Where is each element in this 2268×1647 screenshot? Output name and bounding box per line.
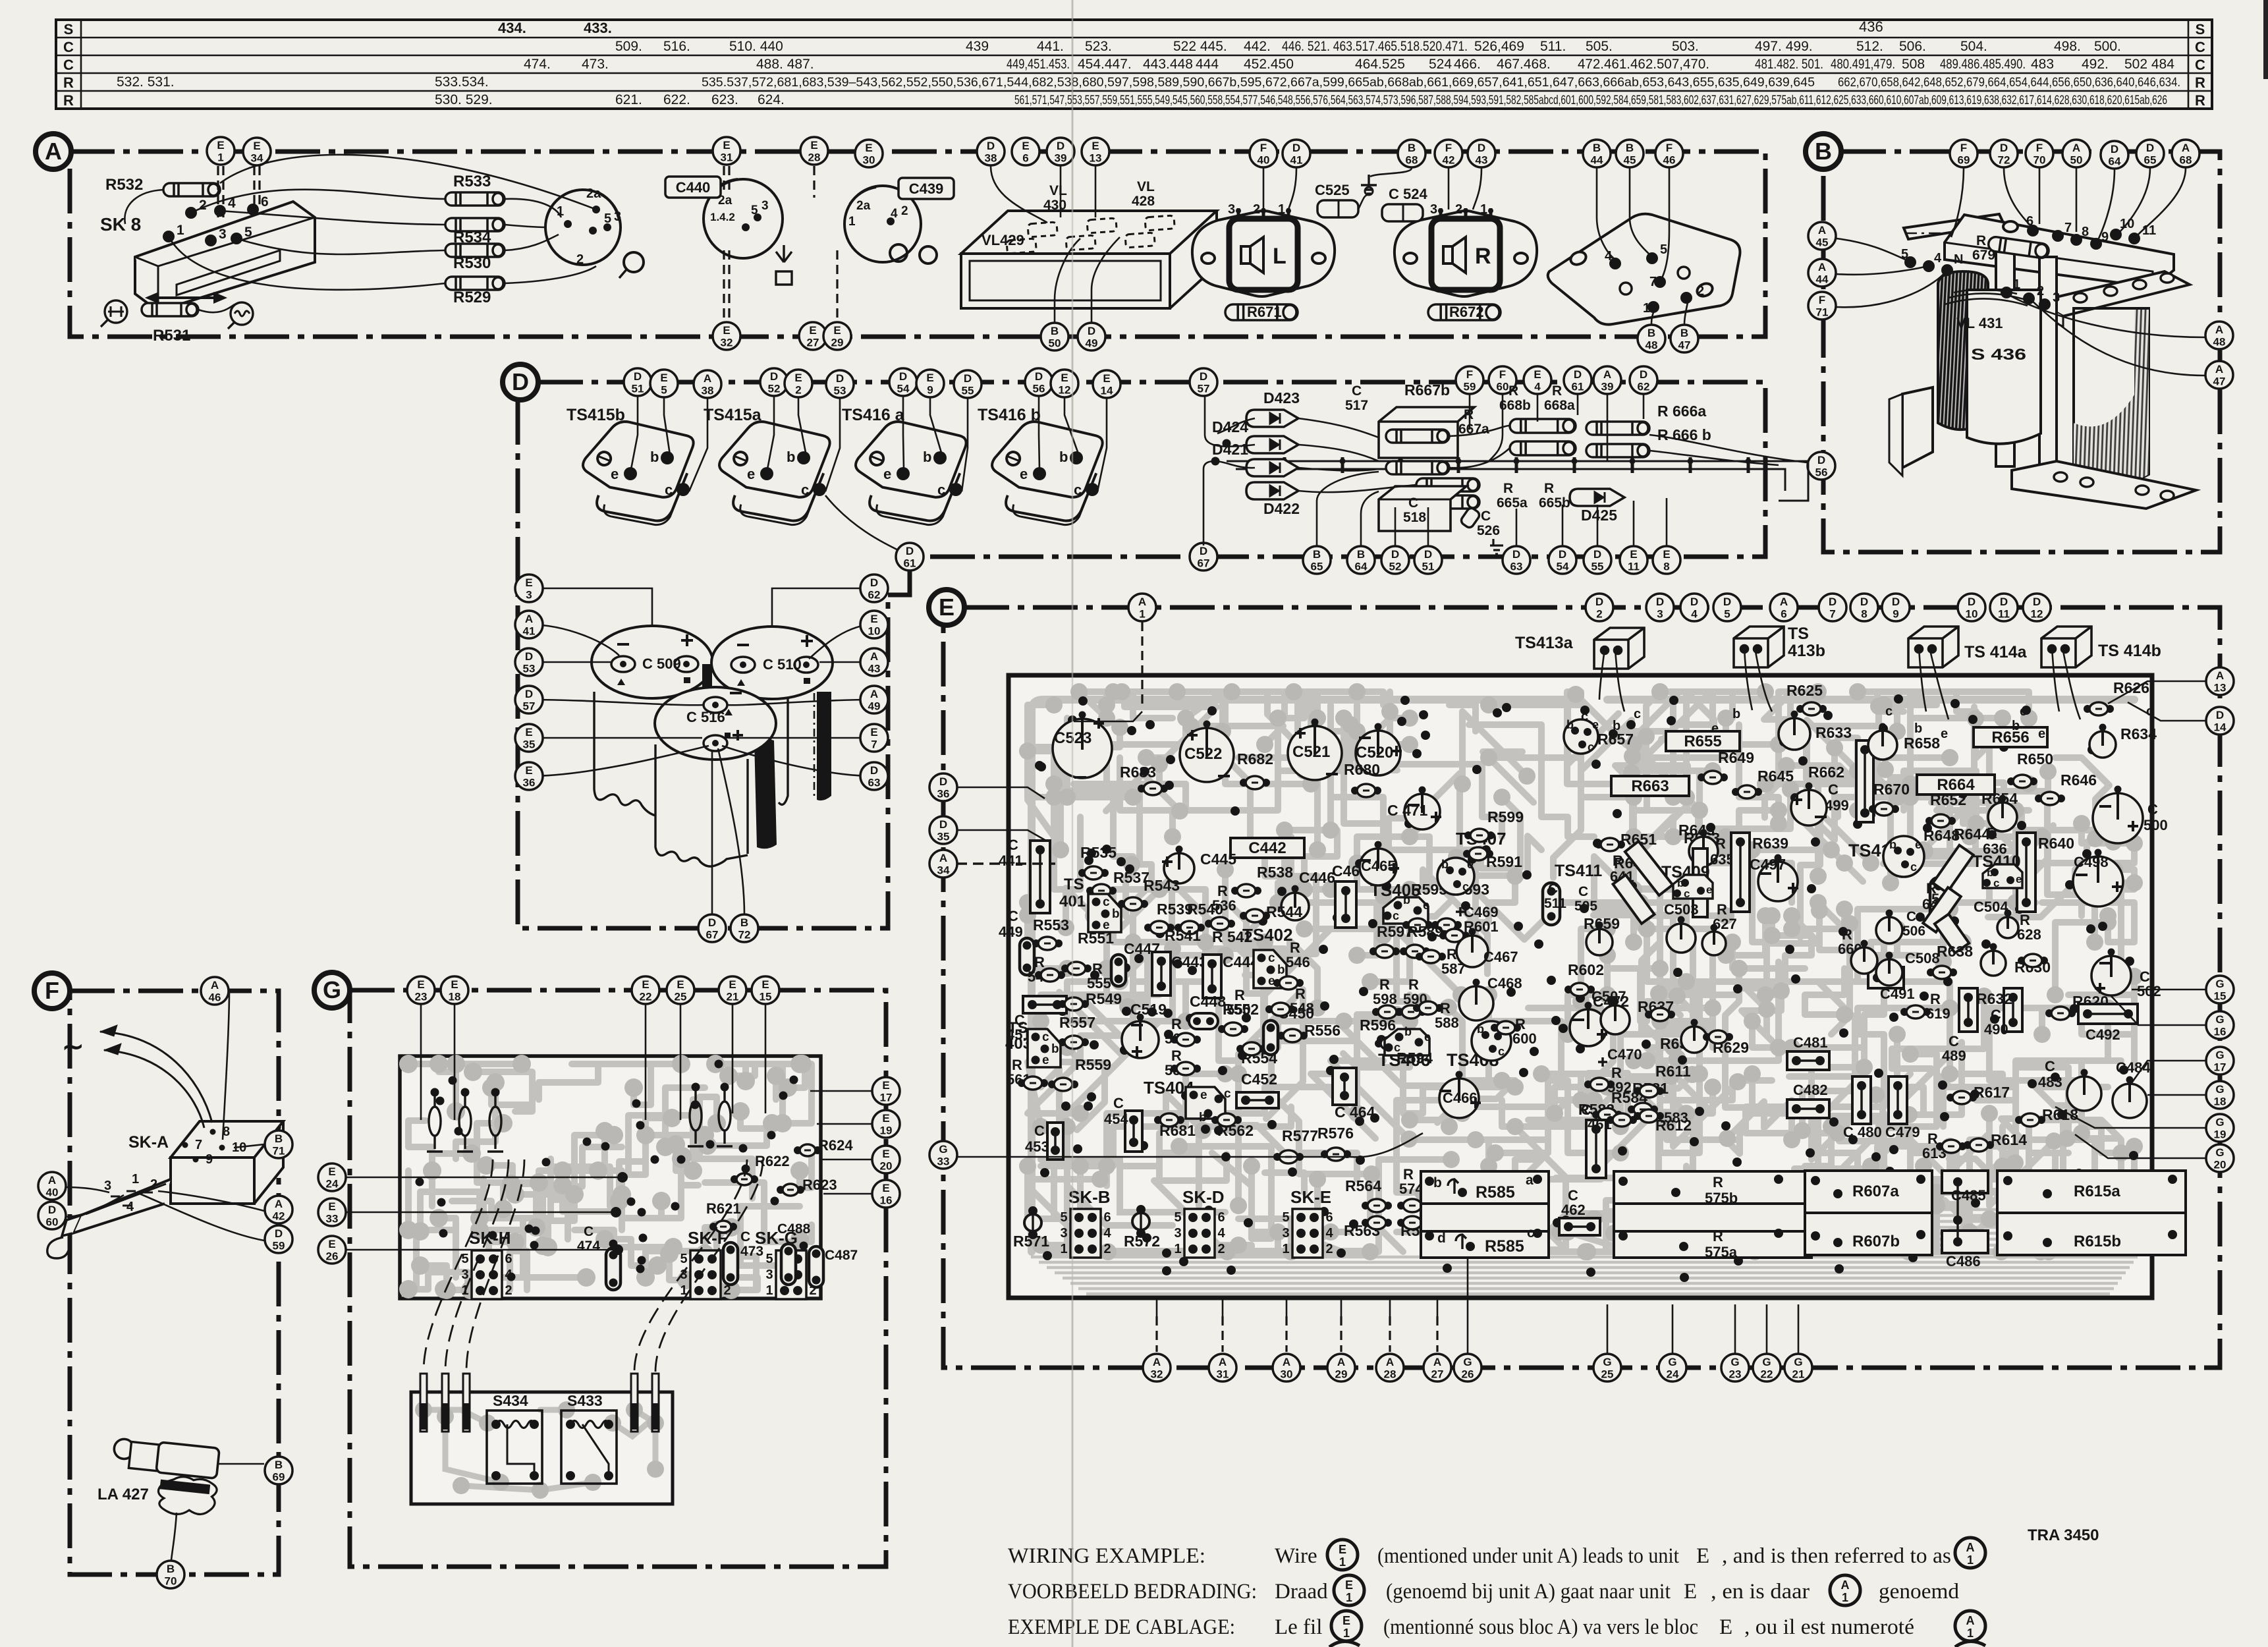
svg-text:C479: C479 [1885,1124,1920,1140]
svg-text:R680: R680 [1344,761,1380,778]
capacitor C443 [1152,952,1171,995]
resistor R592 [1584,1078,1615,1091]
wire E4 down [1537,395,1539,422]
svg-text:c: c [1074,482,1082,498]
svg-text:TS: TS [1064,876,1084,893]
rectifier 3D box C517/R667b [1379,407,1474,458]
node G17 [2206,1047,2234,1075]
svg-text:R564: R564 [1345,1177,1381,1194]
svg-text:441: 441 [999,852,1023,869]
wire D51 to e [631,397,638,469]
svg-text:51: 51 [1422,561,1435,573]
svg-text:SK-D: SK-D [1182,1187,1225,1207]
diode D422 [1246,482,1298,499]
svg-text:C 471: C 471 [1387,802,1428,819]
transistor TS402 [1254,950,1286,988]
capacitor C481 [1787,1051,1829,1070]
capacitor C445 [1162,846,1194,884]
legend pin E1 [1327,1540,1358,1570]
svg-text:50: 50 [1049,337,1061,350]
svg-text:.: . [79,21,83,38]
relay S433 [561,1410,617,1484]
wire G15 [2132,989,2205,991]
transistor R653 [1689,829,1718,866]
node D2 [1586,594,1613,621]
capacitor C465 [1359,841,1399,886]
svg-text:R662: R662 [1808,764,1844,781]
svg-text:A: A [211,979,219,991]
svg-text:C442: C442 [1248,839,1286,857]
svg-text:45: 45 [1816,237,1829,249]
svg-text:D: D [870,576,878,589]
svg-text:67: 67 [1198,557,1210,570]
resistor R552 [1218,1022,1248,1036]
legend pin E1 [1331,1611,1362,1641]
wire D57 to D424 [1205,397,1255,447]
svg-text:D: D [1478,142,1485,154]
svg-text:45: 45 [1624,154,1636,167]
wire F59 down [1469,395,1471,430]
svg-text:e: e [1042,1053,1049,1067]
svg-text:WIRING EXAMPLE:: WIRING EXAMPLE: [1008,1544,1205,1568]
svg-text:4: 4 [1934,251,1942,265]
transistor R654 [1988,795,2017,832]
svg-text:5: 5 [680,1252,687,1266]
wire B70 link [171,1513,177,1560]
capacitor C512 [1930,878,1947,924]
wire E25 [680,1005,682,1120]
svg-text:G: G [1794,1356,1802,1368]
svg-text:27: 27 [1431,1368,1444,1381]
svg-text:1: 1 [1060,1242,1067,1256]
svg-text:4: 4 [1325,1226,1333,1241]
svg-text:51: 51 [632,383,644,395]
transistor TS401 [1088,894,1121,932]
svg-text:b: b [1112,907,1120,921]
svg-text:D: D [1690,596,1698,608]
legend row 4 (cut off) [1329,1641,1985,1647]
svg-text:C: C [584,1224,594,1239]
table row S values [79,18,1883,38]
svg-text:8: 8 [1663,561,1669,573]
wire ts413b-2 [1755,648,1772,712]
svg-text:9: 9 [927,384,933,397]
resistor R539 [1144,921,1175,934]
svg-text:B: B [1357,548,1365,561]
wire stubs entering G board [427,1094,443,1152]
svg-text:13: 13 [1090,152,1102,165]
svg-text:550: 550 [1227,1001,1251,1018]
svg-text:F: F [1445,142,1452,154]
svg-text:10: 10 [868,625,881,638]
svg-text:28: 28 [808,152,821,164]
resistor R561 [1018,1076,1048,1090]
svg-text:62: 62 [868,589,881,601]
wire ts413b-1 [1744,648,1752,710]
capacitor C519 [1122,1014,1159,1059]
svg-text:413b: 413b [1788,642,1825,660]
node A34 [929,850,957,878]
resistor R638 [1927,966,1957,979]
wire D64 [2099,169,2115,238]
svg-text:679: 679 [1972,248,1995,263]
capacitor C498 [2073,849,2123,907]
svg-text:E: E [660,372,667,384]
svg-text:B: B [1051,325,1059,337]
node D60 [38,1202,66,1229]
svg-text:b: b [1277,963,1285,977]
transistor TS410 [1983,864,2022,888]
svg-text:665a: 665a [1497,495,1528,511]
svg-text:Draad: Draad [1275,1580,1328,1604]
svg-text:D: D [1292,142,1300,154]
svg-text:E: E [882,1112,889,1125]
svg-text:6: 6 [1781,608,1786,621]
svg-text:453: 453 [1025,1138,1049,1155]
svg-text:R658: R658 [1904,735,1940,752]
svg-text:3: 3 [1282,1226,1289,1241]
node D57 [1190,368,1217,396]
svg-text:R623: R623 [802,1177,837,1193]
svg-text:498.: 498. [2054,39,2081,54]
capacitor C506 [1876,910,1902,944]
svg-text:1: 1 [848,215,856,229]
wire drop 2110 [1389,1316,1391,1352]
resistor R538 [1231,884,1261,897]
svg-text:G: G [1730,1356,1739,1368]
svg-text:R: R [2195,74,2205,91]
node A38 [694,370,721,398]
svg-text:b: b [1051,1042,1059,1056]
diode D421 [1246,459,1298,476]
svg-text:D: D [2033,596,2041,608]
resistor R557 [1059,1036,1089,1049]
svg-text:57: 57 [523,700,536,713]
resistor R546 [1273,976,1304,990]
node B48 [1638,325,1665,352]
wire E13 to lamp [1095,166,1097,217]
wire SK8-2 to R533 [191,190,445,213]
transistor mounting plate [1548,214,1740,325]
node B69 [265,1457,292,1484]
svg-text:B: B [275,1459,283,1471]
svg-text:492.: 492. [2082,57,2109,72]
svg-text:555: 555 [1087,975,1111,991]
svg-text:D425: D425 [1581,507,1617,524]
svg-text:575b: 575b [1705,1190,1738,1206]
svg-text:15: 15 [2214,990,2227,1003]
resistor R553 [1032,937,1063,950]
svg-text:452.450: 452.450 [1244,57,1294,72]
svg-text:R640: R640 [2038,835,2074,852]
capacitor C518 box [1379,486,1466,531]
svg-text:36: 36 [937,788,950,800]
wire R534 to pot [505,225,545,227]
svg-text:D: D [525,688,533,700]
capacitor C472 [1570,1002,1607,1047]
svg-text:R: R [1613,852,1623,869]
svg-text:e: e [2016,873,2022,885]
svg-text:467.468.: 467.468. [1497,57,1551,72]
svg-text:49: 49 [868,700,881,713]
resistor R629 [1703,1030,1733,1044]
section label F [34,973,70,1009]
svg-text:c: c [665,482,673,498]
svg-text:C508: C508 [1905,950,1940,966]
svg-text:6: 6 [1217,1210,1225,1225]
svg-text:D: D [899,370,907,383]
svg-text:F: F [45,977,59,1004]
svg-text:68: 68 [1406,154,1418,167]
resistor R577 [1273,1150,1304,1163]
svg-text:7: 7 [2064,221,2072,235]
svg-text:473.: 473. [582,57,609,72]
svg-text:C445: C445 [1200,851,1236,868]
wire D62 down [1643,395,1645,419]
resistor R666b body [1586,444,1649,457]
svg-text:1: 1 [1480,202,1487,217]
svg-text:31: 31 [721,152,733,164]
svg-text:430: 430 [1043,198,1066,213]
svg-text:E: E [882,1148,889,1160]
resistor R554 [1236,1042,1267,1055]
svg-text:E: E [1022,140,1029,152]
wire E1 drop [218,166,223,217]
svg-text:54: 54 [1557,561,1569,573]
capacitor C463 [1335,881,1356,928]
section label E [929,590,964,625]
svg-text:C498: C498 [2074,854,2109,870]
svg-text:33: 33 [326,1213,339,1225]
svg-text:E: E [926,372,933,384]
capacitor C523 [1053,712,1112,779]
section label G [314,972,350,1008]
svg-text:D: D [906,545,914,557]
capacitor C491 [1868,967,1904,988]
svg-text:61: 61 [1572,381,1584,393]
svg-text:G: G [2215,1146,2224,1159]
svg-text:8: 8 [2082,225,2089,239]
svg-text:A: A [870,688,878,700]
capacitor C482 [1787,1100,1829,1118]
svg-text:G: G [2215,1083,2224,1096]
svg-text:D: D [1200,370,1207,383]
svg-text:R: R [1464,407,1474,422]
output transformer S436 assembly [1904,214,2190,474]
wire D424a [1217,418,1255,433]
resistor R530 [445,244,505,257]
svg-text:5: 5 [1724,608,1730,621]
svg-text:72: 72 [1998,154,2010,167]
resistor R631 circle [1681,1019,1707,1053]
node E22 [632,976,659,1004]
wire F46 [1661,168,1669,279]
svg-text:446. 521. 463.517.465.518.520.: 446. 521. 463.517.465.518.520.471. [1282,39,1468,54]
node G21 [1784,1354,1812,1382]
svg-text:E: E [328,1238,335,1250]
svg-text:R538: R538 [1257,864,1293,881]
wire E33 [346,1212,616,1214]
transformer foot plates [1889,387,2196,509]
svg-text:A: A [1780,596,1788,608]
svg-text:R602: R602 [1568,961,1604,978]
svg-text:C481: C481 [1793,1034,1828,1051]
svg-text:A: A [1603,368,1611,381]
svg-text:C: C [2147,801,2158,818]
svg-text:1: 1 [132,1172,139,1186]
resistor R611 [1634,1084,1664,1098]
svg-text:R577: R577 [1282,1127,1318,1144]
svg-text:3: 3 [219,227,227,242]
node D43 [1468,140,1495,167]
node F60 [1489,366,1516,394]
resistor R679 body [1987,236,2049,259]
wire drop 2182 [1436,1316,1438,1352]
svg-text:628: 628 [2017,926,2041,943]
resistor network R575 [1614,1171,1812,1258]
wire D35 [956,830,1046,841]
resistor R633 circle [1779,711,1810,750]
svg-text:3: 3 [2053,291,2060,305]
svg-text:F: F [1499,368,1506,381]
svg-text:R683: R683 [1120,764,1156,781]
capacitor C484 [2113,1076,2147,1119]
svg-text:D: D [525,650,533,663]
node D52 [1381,546,1409,574]
node G18 [2206,1081,2234,1109]
wire G16 [2111,996,2205,1025]
svg-text:E: E [328,1165,335,1178]
svg-text:17: 17 [880,1092,893,1104]
wire A40 [67,1187,109,1192]
svg-text:R672: R672 [1449,304,1484,320]
svg-text:∼: ∼ [62,1032,84,1061]
svg-text:, en is daar: , en is daar [1711,1580,1810,1604]
resistor R642 diag [1923,887,1961,932]
svg-text:R646: R646 [2061,771,2097,789]
plug cable curl [47,1237,69,1258]
svg-text:Le fil: Le fil [1275,1615,1322,1639]
svg-text:70: 70 [165,1575,177,1588]
resistor R671 [1225,304,1298,320]
wire E29 [823,322,851,350]
svg-text:41: 41 [1290,154,1303,167]
transistor TS414b box [2041,627,2091,667]
wire ts414b-1 [2052,648,2059,712]
node D64 [2101,141,2128,169]
svg-text:R614: R614 [1991,1131,2027,1148]
svg-text:46: 46 [209,991,221,1004]
svg-text:S: S [64,21,74,38]
svg-text:R626: R626 [2113,679,2149,696]
svg-text:464.525: 464.525 [1355,57,1405,72]
svg-text:39: 39 [1601,381,1614,393]
svg-text:C485: C485 [1951,1187,1986,1204]
resistor R559 [1048,1078,1078,1091]
svg-text:R643: R643 [1678,822,1715,839]
svg-text:3: 3 [1657,608,1663,621]
svg-text:72: 72 [738,929,751,941]
svg-text:40: 40 [1258,154,1270,167]
svg-text:e: e [1706,883,1712,896]
svg-text:3: 3 [1430,202,1437,217]
table row R2 values [435,92,2167,107]
wire E11b [1633,501,1635,545]
wire D421a [1215,461,1255,468]
svg-text:63: 63 [868,777,881,789]
svg-text:b: b [1677,877,1684,889]
wire D53w [529,661,611,663]
svg-text:R532: R532 [105,176,143,194]
resistor R681 [1154,1113,1184,1127]
capacitor C474 [606,1248,621,1290]
capacitor C449 [1020,938,1034,975]
svg-text:36: 36 [523,777,536,789]
svg-text:C: C [1352,383,1362,399]
svg-text:F: F [1466,368,1473,381]
svg-text:55: 55 [962,385,974,397]
transistor TS408 [1472,1021,1511,1061]
svg-text:c: c [1684,887,1690,900]
svg-text:B: B [1593,142,1601,154]
table row C2 values [524,57,2174,72]
wire A50 [2076,168,2078,232]
wire A46 to SK-A [223,991,229,1140]
node D53 [826,370,854,398]
svg-text:E: E [217,139,224,152]
wire A47 [2032,300,2205,376]
svg-text:(mentionné sous bloc A) va ver: (mentionné sous bloc A) va vers le bloc [1383,1615,1698,1639]
svg-text:20: 20 [2214,1159,2227,1171]
capacitor C451 [1023,996,1066,1013]
coil top windings [1945,289,2028,306]
svg-text:C466: C466 [1443,1090,1478,1106]
wire drop 1756 [1155,1316,1157,1352]
svg-text:C467: C467 [1483,949,1518,965]
svg-text:R671: R671 [1247,304,1282,320]
legend pin A1 [1830,1575,1860,1605]
resistor R646 [2035,792,2065,805]
svg-text:63: 63 [1510,561,1523,573]
svg-text:R682: R682 [1237,750,1273,768]
svg-text:D: D [1860,596,1868,608]
wire E22 [645,1005,647,1120]
node F46 [1655,140,1683,167]
svg-text:1: 1 [177,223,184,238]
wire D38 to lamp [991,166,1047,223]
transistor TS405 [1383,897,1428,924]
svg-text:62: 62 [1638,381,1650,393]
wire stub 1756 [1156,1299,1158,1316]
svg-text:R615b: R615b [2074,1233,2121,1250]
svg-text:C: C [1113,1095,1124,1111]
svg-text:532. 531.: 532. 531. [117,74,175,90]
svg-text:32: 32 [1151,1368,1163,1381]
svg-text:23: 23 [1729,1368,1742,1381]
svg-text:TS 414b: TS 414b [2098,642,2161,660]
svg-text:50: 50 [2070,154,2083,167]
svg-text:488. 487.: 488. 487. [756,57,814,72]
wire ts414a-2 [1929,648,1949,719]
resistor R596 [1375,1037,1405,1050]
node D55 [954,370,982,398]
svg-text:C: C [63,57,74,73]
resistor R601 [1439,929,1470,942]
svg-text:E: E [882,1079,889,1092]
svg-text:R553: R553 [1033,916,1069,934]
svg-text:R611: R611 [1655,1063,1691,1080]
svg-text:40: 40 [46,1186,59,1199]
